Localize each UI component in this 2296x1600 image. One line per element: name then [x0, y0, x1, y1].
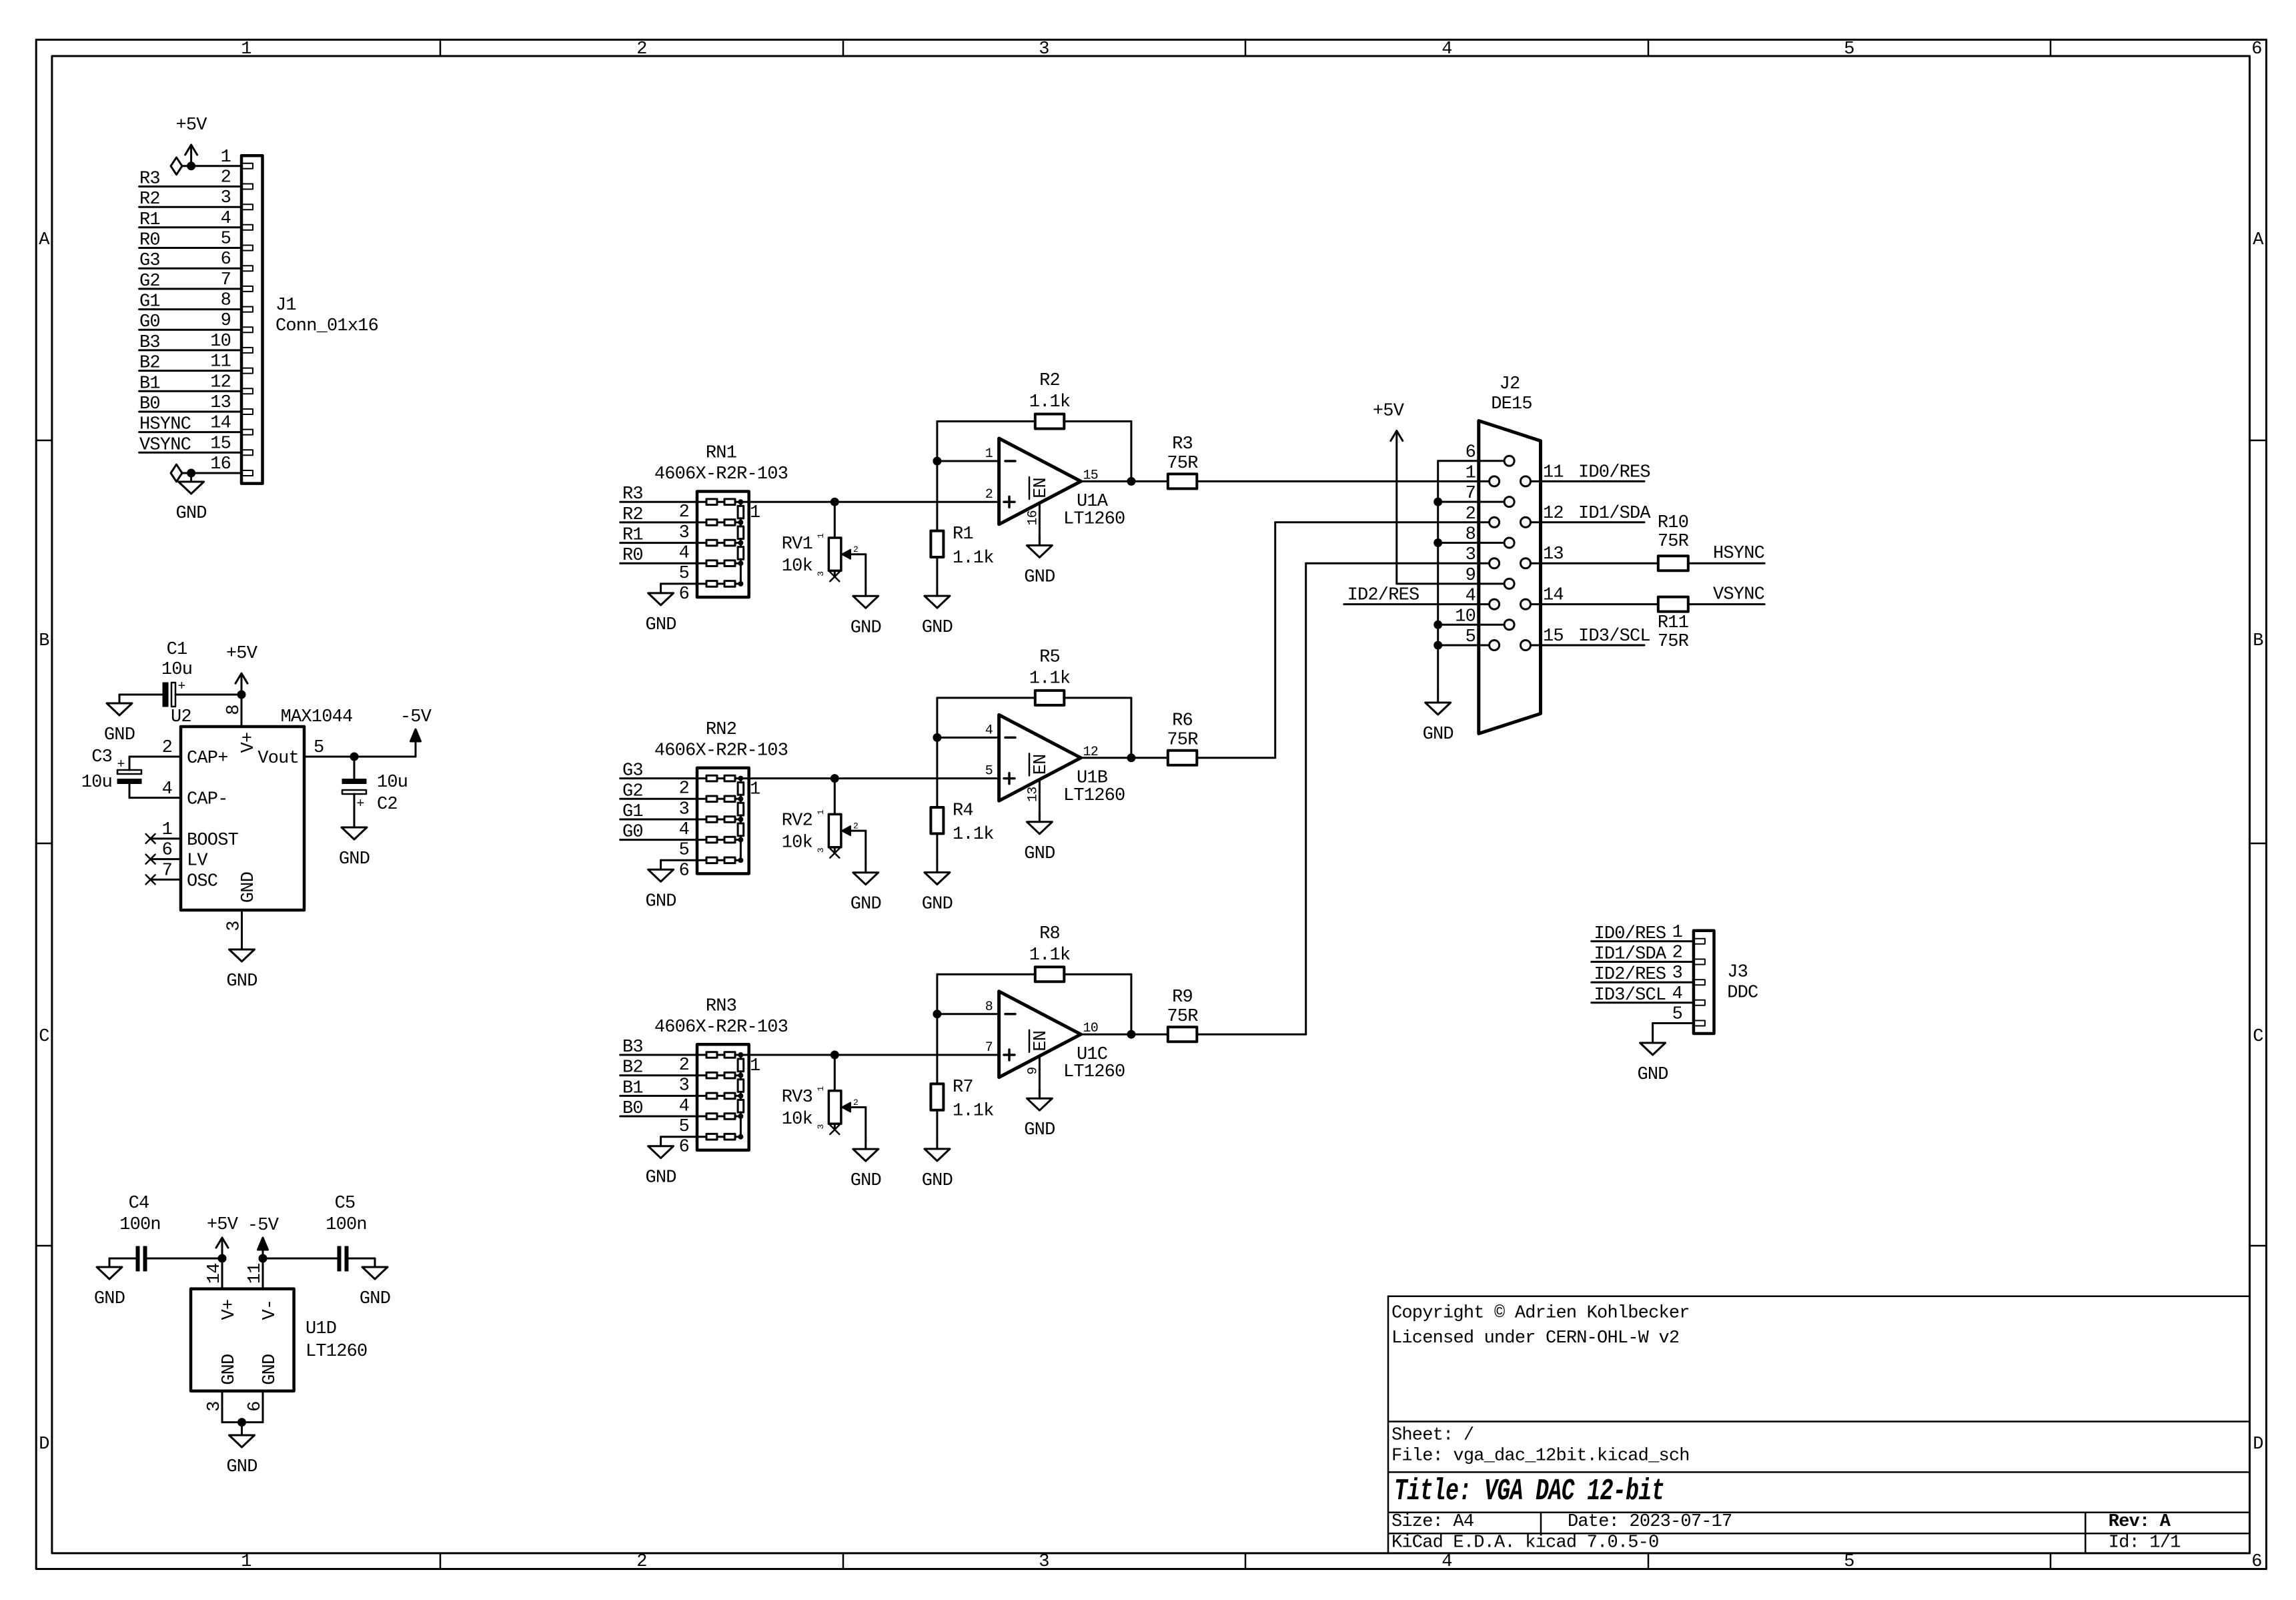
svg-text:+5V: +5V [207, 1215, 239, 1235]
svg-text:1: 1 [985, 446, 993, 462]
svg-text:5: 5 [679, 1117, 689, 1137]
svg-text:10u: 10u [161, 660, 192, 680]
svg-text:C2: C2 [377, 795, 398, 815]
svg-text:EN: EN [1031, 478, 1051, 498]
svg-text:G1: G1 [622, 802, 643, 822]
svg-text:2: 2 [679, 779, 689, 799]
svg-text:10u: 10u [81, 773, 112, 793]
svg-text:ID1/SDA: ID1/SDA [1594, 945, 1667, 965]
svg-text:R7: R7 [953, 1078, 973, 1098]
svg-text:B: B [2253, 631, 2263, 651]
svg-text:CAP+: CAP+ [187, 749, 228, 769]
svg-text:Id: 1/1: Id: 1/1 [2109, 1533, 2181, 1553]
svg-text:GND: GND [1024, 567, 1055, 587]
svg-text:R1: R1 [622, 526, 643, 546]
svg-text:C: C [2253, 1027, 2263, 1047]
svg-text:B0: B0 [139, 394, 160, 414]
svg-text:GND: GND [360, 1289, 390, 1309]
svg-text:15: 15 [1083, 468, 1098, 483]
svg-text:1: 1 [221, 147, 231, 167]
svg-text:R2: R2 [139, 189, 160, 210]
svg-text:1: 1 [241, 1552, 251, 1572]
svg-text:GND: GND [645, 1168, 676, 1188]
svg-text:R2: R2 [622, 505, 643, 525]
svg-text:2: 2 [853, 821, 858, 831]
svg-text:B1: B1 [139, 374, 160, 394]
svg-text:C4: C4 [129, 1194, 149, 1214]
svg-text:6: 6 [162, 841, 172, 861]
svg-text:2: 2 [679, 502, 689, 522]
svg-text:R3: R3 [1172, 434, 1193, 454]
svg-text:2: 2 [679, 1056, 689, 1076]
svg-text:1.1k: 1.1k [953, 1102, 994, 1122]
svg-text:R5: R5 [1039, 647, 1060, 667]
svg-text:+5V: +5V [175, 115, 207, 135]
svg-text:3: 3 [1672, 963, 1682, 983]
svg-text:11: 11 [1543, 462, 1564, 482]
svg-text:5: 5 [221, 230, 231, 250]
svg-text:G2: G2 [139, 272, 160, 292]
svg-text:R0: R0 [139, 231, 160, 251]
svg-text:G1: G1 [139, 292, 160, 312]
svg-text:EN: EN [1031, 754, 1051, 775]
svg-text:6: 6 [679, 1138, 689, 1158]
svg-text:5: 5 [679, 841, 689, 861]
svg-text:J2: J2 [1500, 374, 1520, 394]
svg-text:HSYNC: HSYNC [1713, 544, 1765, 564]
svg-text:4606X-R2R-103: 4606X-R2R-103 [654, 741, 788, 761]
svg-text:DDC: DDC [1727, 983, 1758, 1003]
svg-text:4606X-R2R-103: 4606X-R2R-103 [654, 464, 788, 484]
svg-text:15: 15 [1543, 627, 1564, 647]
svg-text:4: 4 [1442, 1552, 1452, 1572]
svg-text:ID3/SCL: ID3/SCL [1594, 985, 1666, 1006]
svg-text:1: 1 [816, 809, 826, 815]
svg-text:+5V: +5V [226, 644, 258, 664]
svg-text:GND: GND [226, 1457, 257, 1477]
svg-text:13: 13 [1025, 787, 1041, 802]
svg-text:ID2/RES: ID2/RES [1347, 586, 1419, 606]
svg-text:5: 5 [1844, 1552, 1854, 1572]
svg-text:GND: GND [226, 971, 257, 991]
svg-text:Title: VGA DAC 12-bit: Title: VGA DAC 12-bit [1394, 1475, 1664, 1509]
svg-text:D: D [2253, 1435, 2263, 1455]
svg-text:C: C [39, 1027, 49, 1047]
svg-text:+: + [356, 797, 364, 812]
svg-text:LT1260: LT1260 [1063, 1062, 1125, 1082]
svg-text:KiCad E.D.A. kicad 7.0.5-0: KiCad E.D.A. kicad 7.0.5-0 [1391, 1533, 1658, 1553]
svg-text:J1: J1 [275, 296, 296, 316]
svg-text:DE15: DE15 [1491, 394, 1532, 414]
svg-text:4: 4 [679, 544, 689, 564]
svg-text:12: 12 [1083, 745, 1098, 760]
svg-text:B0: B0 [622, 1099, 643, 1119]
svg-text:B3: B3 [622, 1038, 643, 1058]
svg-text:LT1260: LT1260 [306, 1342, 367, 1362]
svg-text:+: + [177, 679, 185, 695]
svg-text:Conn_01x16: Conn_01x16 [275, 316, 378, 336]
svg-text:3: 3 [1039, 39, 1049, 59]
svg-text:16: 16 [1025, 510, 1041, 525]
svg-text:7: 7 [985, 1040, 993, 1056]
svg-text:75R: 75R [1658, 532, 1689, 552]
svg-text:GND: GND [260, 1354, 280, 1385]
svg-text:R6: R6 [1172, 711, 1193, 731]
svg-text:V+: V+ [219, 1300, 239, 1320]
svg-text:6: 6 [2251, 39, 2261, 59]
svg-text:ID1/SDA: ID1/SDA [1578, 504, 1651, 524]
svg-text:RN1: RN1 [706, 444, 736, 464]
svg-text:5: 5 [1844, 39, 1854, 59]
svg-text:3: 3 [679, 799, 689, 819]
svg-text:3: 3 [816, 572, 826, 576]
svg-text:3: 3 [221, 188, 231, 208]
svg-text:2: 2 [853, 544, 858, 554]
svg-text:75R: 75R [1167, 1007, 1198, 1027]
svg-text:B: B [39, 631, 49, 651]
svg-text:75R: 75R [1658, 632, 1689, 652]
svg-text:Copyright © Adrien Kohlbecker: Copyright © Adrien Kohlbecker [1391, 1303, 1690, 1323]
svg-text:R1: R1 [953, 524, 973, 544]
svg-text:R10: R10 [1658, 513, 1688, 533]
svg-text:V-: V- [260, 1300, 280, 1320]
svg-text:1: 1 [816, 1086, 826, 1092]
svg-text:Licensed under CERN-OHL-W v2: Licensed under CERN-OHL-W v2 [1391, 1328, 1679, 1348]
svg-text:6: 6 [679, 584, 689, 605]
svg-text:GND: GND [239, 872, 259, 903]
svg-text:1: 1 [816, 533, 826, 538]
svg-text:-5V: -5V [247, 1216, 279, 1236]
svg-text:GND: GND [104, 725, 135, 745]
svg-text:5: 5 [679, 564, 689, 584]
svg-text:GND: GND [339, 849, 370, 869]
svg-text:4606X-R2R-103: 4606X-R2R-103 [654, 1018, 788, 1038]
svg-text:15: 15 [210, 434, 231, 454]
svg-text:9: 9 [221, 311, 231, 331]
svg-text:D: D [39, 1435, 49, 1455]
svg-text:GND: GND [922, 895, 953, 915]
svg-text:3: 3 [1466, 545, 1476, 565]
svg-text:3: 3 [205, 1401, 225, 1411]
svg-text:4: 4 [679, 820, 689, 840]
svg-text:75R: 75R [1167, 454, 1198, 474]
svg-text:1: 1 [750, 503, 760, 523]
svg-text:6: 6 [245, 1401, 265, 1411]
svg-text:GND: GND [850, 1171, 881, 1191]
svg-text:4: 4 [1672, 984, 1682, 1004]
svg-text:Vout: Vout [257, 749, 299, 769]
svg-text:EN: EN [1031, 1031, 1051, 1052]
svg-text:12: 12 [210, 372, 231, 392]
svg-text:2: 2 [853, 1098, 858, 1108]
svg-text:11: 11 [245, 1263, 265, 1284]
svg-text:LT1260: LT1260 [1063, 786, 1125, 806]
svg-text:100n: 100n [119, 1215, 161, 1235]
svg-text:1.1k: 1.1k [1029, 669, 1071, 689]
svg-text:A: A [2253, 230, 2264, 250]
svg-text:GND: GND [922, 618, 953, 638]
svg-text:ID0/RES: ID0/RES [1594, 924, 1666, 944]
svg-text:10: 10 [210, 332, 231, 352]
svg-text:14: 14 [210, 414, 231, 434]
svg-text:13: 13 [210, 393, 231, 413]
svg-text:7: 7 [221, 270, 231, 290]
svg-text:V+: V+ [239, 733, 259, 753]
svg-text:G3: G3 [622, 761, 643, 781]
svg-text:6: 6 [221, 250, 231, 270]
svg-text:+: + [117, 757, 124, 773]
svg-text:10k: 10k [782, 556, 812, 576]
svg-text:ID2/RES: ID2/RES [1594, 965, 1666, 985]
svg-text:9: 9 [1025, 1068, 1041, 1075]
svg-text:1: 1 [750, 780, 760, 800]
svg-text:3: 3 [679, 523, 689, 543]
svg-text:Sheet: /: Sheet: / [1391, 1426, 1474, 1446]
svg-text:5: 5 [1672, 1005, 1682, 1025]
svg-text:1: 1 [1672, 923, 1682, 943]
svg-text:6: 6 [679, 861, 689, 881]
svg-text:B3: B3 [139, 333, 160, 353]
svg-text:VSYNC: VSYNC [139, 435, 191, 455]
svg-text:2: 2 [221, 168, 231, 188]
svg-text:MAX1044: MAX1044 [281, 707, 353, 727]
svg-text:HSYNC: HSYNC [139, 415, 191, 435]
svg-text:-5V: -5V [400, 707, 432, 727]
svg-text:1: 1 [162, 820, 172, 840]
svg-text:G0: G0 [139, 312, 160, 332]
svg-text:GND: GND [1423, 725, 1454, 745]
svg-text:R9: R9 [1172, 987, 1193, 1008]
svg-text:R2: R2 [1039, 371, 1060, 391]
svg-text:1.1k: 1.1k [1029, 392, 1071, 412]
svg-text:75R: 75R [1167, 730, 1198, 750]
svg-text:Date: 2023-07-17: Date: 2023-07-17 [1568, 1512, 1732, 1532]
svg-text:ID3/SCL: ID3/SCL [1578, 627, 1650, 647]
svg-text:11: 11 [210, 352, 231, 372]
svg-text:R4: R4 [953, 801, 973, 821]
svg-text:4: 4 [162, 779, 172, 799]
svg-text:File: vga_dac_12bit.kicad_sch: File: vga_dac_12bit.kicad_sch [1391, 1447, 1690, 1467]
svg-text:1: 1 [750, 1056, 760, 1076]
svg-text:2: 2 [636, 1552, 646, 1572]
svg-text:B1: B1 [622, 1078, 643, 1098]
svg-text:5: 5 [985, 764, 993, 779]
svg-text:R0: R0 [622, 546, 643, 566]
svg-text:3: 3 [816, 1124, 826, 1129]
svg-text:C5: C5 [335, 1194, 356, 1214]
svg-text:4: 4 [1442, 39, 1452, 59]
svg-text:U2: U2 [171, 707, 191, 727]
svg-text:LV: LV [187, 851, 208, 871]
svg-text:2: 2 [636, 39, 646, 59]
svg-text:Size: A4: Size: A4 [1391, 1512, 1474, 1532]
svg-text:RV1: RV1 [782, 534, 812, 554]
svg-text:4: 4 [221, 209, 231, 229]
svg-text:U1D: U1D [306, 1319, 336, 1339]
svg-text:5: 5 [314, 738, 324, 758]
svg-text:ID0/RES: ID0/RES [1578, 462, 1650, 482]
svg-text:GND: GND [175, 504, 206, 524]
svg-text:3: 3 [816, 848, 826, 853]
svg-text:2: 2 [1466, 504, 1476, 524]
svg-text:3: 3 [679, 1076, 689, 1096]
svg-text:R3: R3 [139, 169, 160, 189]
svg-text:LT1260: LT1260 [1063, 509, 1125, 529]
svg-text:10k: 10k [782, 833, 812, 853]
svg-text:16: 16 [210, 454, 231, 474]
svg-text:J3: J3 [1727, 963, 1748, 983]
svg-text:7: 7 [162, 861, 172, 881]
svg-text:13: 13 [1543, 544, 1564, 564]
svg-text:6: 6 [2251, 1552, 2261, 1572]
svg-text:3: 3 [225, 921, 245, 931]
svg-text:10: 10 [1083, 1021, 1098, 1036]
svg-text:R11: R11 [1658, 613, 1688, 633]
svg-text:8: 8 [224, 705, 244, 715]
svg-text:4: 4 [679, 1096, 689, 1116]
svg-text:RN2: RN2 [706, 720, 736, 740]
svg-text:GND: GND [645, 891, 676, 911]
svg-text:2: 2 [162, 738, 172, 758]
svg-text:GND: GND [850, 618, 881, 638]
svg-text:GND: GND [94, 1289, 125, 1309]
svg-text:CAP-: CAP- [187, 790, 228, 810]
svg-text:10k: 10k [782, 1110, 812, 1130]
svg-text:+5V: +5V [1373, 402, 1405, 422]
svg-text:RV2: RV2 [782, 811, 812, 831]
svg-text:1.1k: 1.1k [953, 548, 994, 568]
svg-text:G3: G3 [139, 251, 160, 271]
svg-text:1.1k: 1.1k [1029, 945, 1071, 965]
svg-text:B2: B2 [622, 1058, 643, 1078]
svg-text:GND: GND [645, 615, 676, 635]
svg-text:12: 12 [1543, 504, 1564, 524]
svg-text:RV3: RV3 [782, 1088, 812, 1108]
svg-text:GND: GND [219, 1354, 239, 1385]
svg-text:1: 1 [241, 39, 251, 59]
svg-text:RN3: RN3 [706, 996, 736, 1016]
svg-text:14: 14 [205, 1263, 225, 1284]
svg-text:G0: G0 [622, 823, 643, 843]
svg-text:1: 1 [1466, 463, 1476, 483]
svg-text:VSYNC: VSYNC [1713, 585, 1765, 605]
svg-text:R3: R3 [622, 484, 643, 504]
svg-text:4: 4 [985, 723, 993, 738]
svg-text:GND: GND [850, 895, 881, 915]
svg-text:GND: GND [922, 1171, 953, 1191]
svg-text:8: 8 [985, 999, 993, 1015]
svg-text:2: 2 [985, 487, 993, 502]
svg-text:8: 8 [221, 291, 231, 311]
svg-text:2: 2 [1672, 943, 1682, 963]
svg-text:10u: 10u [377, 773, 408, 793]
svg-text:Rev: A: Rev: A [2109, 1512, 2171, 1532]
svg-text:A: A [39, 230, 50, 250]
svg-text:OSC: OSC [187, 871, 218, 891]
svg-text:1.1k: 1.1k [953, 825, 994, 845]
svg-text:GND: GND [1637, 1065, 1668, 1085]
svg-text:100n: 100n [326, 1215, 367, 1235]
svg-text:C3: C3 [91, 747, 112, 767]
svg-text:R8: R8 [1039, 924, 1060, 944]
svg-text:C1: C1 [167, 640, 187, 660]
svg-text:GND: GND [1024, 1120, 1055, 1140]
svg-text:G2: G2 [622, 781, 643, 801]
svg-text:BOOST: BOOST [187, 831, 239, 851]
svg-text:R1: R1 [139, 210, 160, 230]
svg-text:3: 3 [1039, 1552, 1049, 1572]
svg-text:GND: GND [1024, 844, 1055, 864]
svg-text:14: 14 [1543, 586, 1564, 606]
svg-text:B2: B2 [139, 354, 160, 374]
